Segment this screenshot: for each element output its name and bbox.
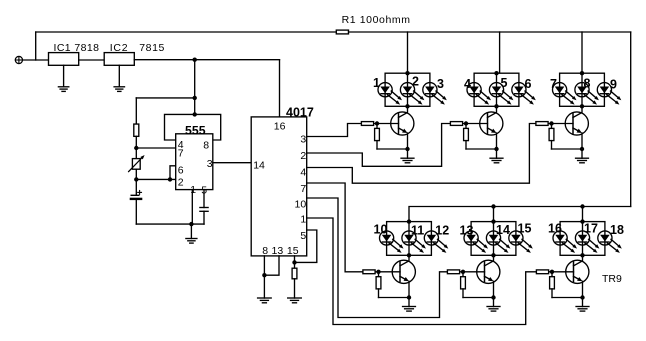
svg-text:IC1 7818: IC1 7818 xyxy=(54,42,100,54)
svg-text:7815: 7815 xyxy=(139,42,165,54)
svg-text:13: 13 xyxy=(460,224,474,238)
svg-text:14: 14 xyxy=(253,160,265,172)
svg-text:7: 7 xyxy=(550,77,557,91)
svg-text:6: 6 xyxy=(178,165,184,177)
svg-text:4: 4 xyxy=(464,77,471,91)
svg-text:13: 13 xyxy=(272,245,284,257)
svg-text:16: 16 xyxy=(548,222,562,236)
svg-text:15: 15 xyxy=(518,222,532,236)
svg-text:7: 7 xyxy=(300,183,306,195)
svg-text:2: 2 xyxy=(300,150,306,162)
svg-text:9: 9 xyxy=(610,78,617,92)
svg-text:14: 14 xyxy=(496,223,510,237)
svg-text:8: 8 xyxy=(262,245,268,257)
svg-text:5: 5 xyxy=(501,76,508,90)
svg-text:IC2: IC2 xyxy=(110,42,129,54)
svg-text:17: 17 xyxy=(584,222,598,236)
svg-text:3: 3 xyxy=(300,134,306,146)
svg-text:2: 2 xyxy=(178,177,184,189)
svg-text:15: 15 xyxy=(287,245,299,257)
svg-text:10: 10 xyxy=(374,223,388,237)
svg-text:7: 7 xyxy=(178,148,184,160)
svg-text:4: 4 xyxy=(300,167,306,179)
svg-text:2: 2 xyxy=(412,75,419,89)
svg-text:10: 10 xyxy=(295,198,307,210)
svg-text:TR9: TR9 xyxy=(602,273,622,285)
svg-text:5: 5 xyxy=(300,230,306,242)
svg-text:1: 1 xyxy=(373,76,380,90)
svg-text:12: 12 xyxy=(435,224,449,238)
svg-text:R1 100ohmm: R1 100ohmm xyxy=(342,14,411,26)
svg-text:4017: 4017 xyxy=(286,106,314,120)
svg-text:555: 555 xyxy=(185,123,206,137)
svg-text:8: 8 xyxy=(203,140,209,152)
svg-text:16: 16 xyxy=(274,121,286,133)
svg-text:6: 6 xyxy=(525,77,532,91)
svg-text:3: 3 xyxy=(437,77,444,91)
svg-text:8: 8 xyxy=(584,77,591,91)
svg-text:1: 1 xyxy=(300,214,306,226)
svg-text:18: 18 xyxy=(610,223,624,237)
svg-text:11: 11 xyxy=(411,224,424,238)
svg-text:1: 1 xyxy=(190,184,196,196)
svg-text:3: 3 xyxy=(207,158,213,170)
